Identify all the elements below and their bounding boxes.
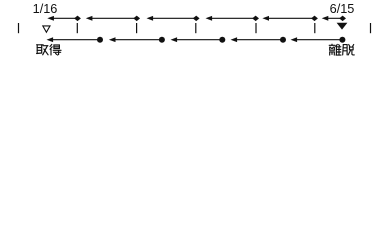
svg-text:1/16: 1/16: [33, 2, 58, 16]
svg-text:6/15: 6/15: [330, 2, 355, 16]
